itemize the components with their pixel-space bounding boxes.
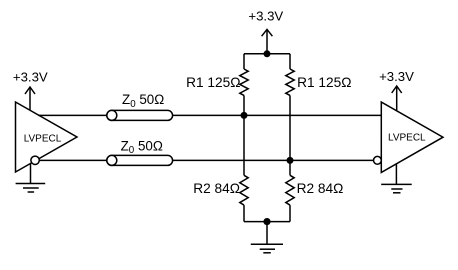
svg-text:LVPECL: LVPECL	[24, 133, 62, 144]
svg-text:R2 84Ω: R2 84Ω	[297, 181, 344, 196]
svg-text:+3.3V: +3.3V	[13, 69, 48, 84]
svg-text:+3.3V: +3.3V	[248, 9, 283, 24]
svg-text:R2 84Ω: R2 84Ω	[193, 181, 240, 196]
svg-text:Z0 50Ω: Z0 50Ω	[121, 139, 163, 157]
svg-text:+3.3V: +3.3V	[379, 69, 414, 84]
svg-text:R1 125Ω: R1 125Ω	[186, 75, 240, 90]
svg-text:Z0 50Ω: Z0 50Ω	[122, 92, 164, 110]
svg-text:LVPECL: LVPECL	[388, 133, 426, 144]
svg-text:R1 125Ω: R1 125Ω	[297, 75, 351, 90]
